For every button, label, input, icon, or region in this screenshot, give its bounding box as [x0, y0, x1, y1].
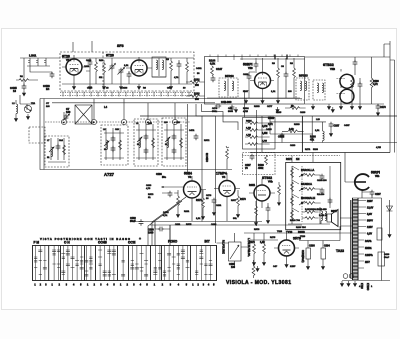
svg-text:6T26: 6T26	[106, 54, 114, 58]
AVC resistor box	[243, 118, 276, 150]
wire avc riser	[245, 90, 262, 226]
wire AF lines	[135, 222, 302, 226]
svg-text:C177: C177	[267, 106, 273, 108]
resistor R9L	[278, 185, 281, 195]
svg-text:160: 160	[66, 110, 71, 114]
capacitor C175	[215, 104, 221, 109]
ground arrows in SF3	[72, 84, 75, 89]
svg-text:KT28: KT28	[360, 283, 362, 289]
svg-text:4,7M: 4,7M	[376, 146, 381, 149]
electrolytic C194	[321, 241, 330, 270]
ground	[331, 107, 334, 112]
svg-text:4,7M: 4,7M	[246, 134, 251, 137]
svg-text:EMB1: EMB1	[365, 247, 372, 250]
wire y122	[270, 121, 326, 123]
resistor R178	[252, 266, 255, 276]
svg-text:R175: R175	[270, 237, 276, 239]
svg-text:R9N4: R9N4	[246, 120, 252, 123]
svg-text:C191: C191	[216, 205, 222, 207]
wires pot area	[217, 233, 250, 268]
switch contacts	[34, 250, 212, 276]
svg-text:125V: 125V	[367, 226, 373, 229]
ground SF3 b	[119, 84, 122, 89]
wire main B line	[140, 115, 397, 117]
resistor R4-218	[305, 217, 315, 220]
capacitor C4B2	[254, 62, 259, 68]
band pack dashed box 4	[162, 118, 186, 166]
junction b	[91, 119, 96, 124]
capacitor C197	[362, 190, 381, 198]
svg-text:C4P: C4P	[273, 265, 278, 268]
resistor R1	[19, 79, 29, 82]
svg-text:C173: C173	[380, 106, 386, 109]
svg-text:1M: 1M	[99, 77, 102, 79]
svg-text:R172: R172	[286, 158, 292, 161]
svg-text:ST932: ST932	[262, 176, 272, 180]
junction e	[172, 119, 177, 124]
svg-text:O H: O H	[64, 241, 70, 245]
ground	[234, 107, 237, 112]
capacitor C176b	[230, 105, 235, 111]
svg-text:MF213: MF213	[299, 74, 308, 78]
junction a	[61, 119, 66, 124]
capacitor C190	[148, 225, 170, 243]
svg-text:MF213: MF213	[225, 74, 234, 78]
tuner pack internals 1	[48, 138, 66, 162]
resistor R174	[255, 206, 258, 216]
speaker 0317	[327, 209, 338, 227]
svg-text:50uF: 50uF	[130, 220, 136, 223]
band pack dashed box 1	[45, 136, 69, 167]
wire bottom bus in box	[62, 83, 192, 85]
svg-text:V4: V4	[222, 175, 226, 179]
wire to transformer	[352, 197, 382, 199]
svg-text:5188: 5188	[313, 149, 319, 151]
svg-text:C4N1: C4N1	[196, 67, 202, 70]
svg-text:1,5M: 1,5M	[262, 132, 267, 135]
svg-text:C168: C168	[300, 112, 306, 114]
SF3 internal divider	[102, 52, 104, 91]
svg-text:V3: V3	[188, 175, 192, 179]
wire verticals	[270, 116, 312, 143]
box 2nd IF	[205, 57, 305, 105]
svg-text:50+: 50+	[162, 176, 167, 179]
svg-text:TA23: TA23	[336, 249, 344, 253]
svg-text:C199: C199	[384, 254, 390, 256]
svg-text:12MPh: 12MPh	[365, 254, 373, 257]
svg-text:R9T7: R9T7	[231, 200, 237, 202]
svg-text:12NF: 12NF	[290, 266, 296, 268]
svg-text:3,3k: 3,3k	[289, 128, 294, 131]
resistor R165	[277, 68, 280, 78]
svg-text:R9T3: R9T3	[148, 194, 154, 196]
IF can L5	[152, 57, 166, 77]
potentiometer	[229, 242, 242, 269]
svg-text:R165: R165	[276, 112, 282, 114]
svg-text:1,5k: 1,5k	[260, 241, 265, 244]
wire top bus in box	[62, 58, 194, 71]
IF can MF213	[219, 74, 238, 97]
svg-text:PAROLLA: PAROLLA	[301, 168, 314, 172]
svg-text:C176: C176	[206, 195, 212, 197]
svg-text:50PV: 50PV	[367, 220, 373, 223]
capacitor C171	[353, 60, 358, 66]
pilot lamp 1	[343, 274, 348, 279]
svg-text:R9N9: R9N9	[294, 124, 300, 126]
capacitor C4B	[247, 74, 252, 80]
svg-text:R9N4: R9N4	[243, 107, 249, 110]
svg-text:R.8N 1k: R.8N 1k	[319, 215, 328, 217]
resistor R176	[249, 233, 256, 265]
svg-text:C167: C167	[334, 125, 340, 128]
svg-text:C4N7: C4N7	[344, 124, 350, 127]
wire antenna feed	[20, 57, 60, 59]
capacitor C189	[168, 191, 173, 197]
wire dashed line	[242, 155, 340, 157]
svg-text:C160: C160	[86, 60, 92, 62]
svg-text:R9N8: R9N8	[298, 230, 305, 234]
resistor R175	[290, 107, 300, 110]
svg-text:C183: C183	[290, 145, 296, 147]
svg-text:50RPI: 50RPI	[371, 171, 380, 175]
svg-text:4,7k: 4,7k	[268, 123, 273, 126]
svg-text:NORMALE: NORMALE	[301, 196, 315, 200]
svg-text:V5b: V5b	[375, 175, 380, 178]
wire risers from packs	[64, 99, 175, 119]
svg-text:Y129: Y129	[300, 236, 306, 238]
svg-text:L3N1: L3N1	[29, 54, 37, 58]
svg-text:500k: 500k	[212, 111, 218, 113]
svg-text:R171: R171	[196, 199, 202, 202]
wire bottom of box	[207, 97, 300, 99]
svg-text:R9T6: R9T6	[254, 229, 260, 231]
wire top rail	[305, 56, 390, 58]
svg-text:C161: C161	[84, 66, 90, 68]
tuning gang box	[75, 105, 92, 124]
svg-text:VISTA POSTERIORE CON TASTI IN: VISTA POSTERIORE CON TASTI IN BASSO	[40, 237, 130, 241]
bus with junctions	[45, 121, 190, 123]
svg-text:R9T5: R9T5	[186, 224, 192, 226]
svg-text:A727: A727	[104, 172, 115, 177]
svg-text:216V: 216V	[367, 200, 373, 203]
oscillator coil dashed box left	[29, 127, 45, 143]
wire risers from bank	[155, 222, 217, 281]
svg-text:C185-390: C185-390	[317, 180, 327, 182]
capacitor C164	[127, 72, 132, 78]
svg-text:V1B: V1B	[330, 67, 335, 71]
svg-text:T928: T928	[277, 231, 283, 233]
tube V5 35Y9	[274, 233, 301, 267]
resistor R167	[226, 146, 229, 169]
svg-text:C186-150: C186-150	[317, 209, 327, 211]
tube 6TB32 upper triode	[337, 69, 357, 91]
ground row	[311, 104, 314, 109]
svg-text:4,7M: 4,7M	[262, 140, 267, 143]
coil L3N1	[27, 54, 50, 67]
tube V2 50BPI	[243, 58, 274, 89]
svg-text:R160 78C: R160 78C	[296, 227, 306, 229]
svg-text:+: +	[139, 237, 141, 241]
IF can MF213 (2nd)	[296, 74, 309, 101]
wire main line y=98.5	[40, 98, 302, 100]
tone control box	[286, 162, 341, 229]
tube V1B 6T26	[106, 54, 152, 77]
svg-text:R163: R163	[194, 94, 200, 96]
svg-text:OC4B: OC4B	[98, 241, 108, 245]
section dividers	[49, 246, 191, 281]
resistor R170	[156, 173, 180, 217]
staircase wires to detector	[202, 104, 238, 130]
wire	[24, 58, 52, 78]
svg-text:4,7M: 4,7M	[262, 125, 267, 128]
svg-text:100: 100	[231, 266, 236, 269]
svg-text:50uF: 50uF	[384, 257, 390, 259]
switch bank frame	[33, 246, 217, 281]
svg-text:C186 50: C186 50	[206, 152, 209, 162]
svg-text:R171: R171	[305, 149, 311, 151]
svg-text:C167: C167	[216, 67, 223, 71]
tube 6TB32 lower triode	[337, 87, 357, 106]
svg-text:C4N2: C4N2	[163, 211, 169, 214]
ground	[22, 91, 25, 96]
svg-text:5000: 5000	[228, 111, 234, 113]
ground arrows bottom	[340, 281, 343, 286]
ground cluster	[244, 98, 247, 103]
band pack dashed box 2	[101, 125, 128, 165]
svg-text:6,3V: 6,3V	[367, 233, 372, 236]
resistor R166	[293, 68, 296, 78]
svg-text:TY28: TY28	[286, 230, 293, 234]
ground	[277, 200, 280, 205]
svg-text:R9N8: R9N8	[268, 117, 275, 120]
capacitor C168	[284, 72, 289, 78]
tube V4b ST932	[249, 176, 275, 208]
tuner pack internals 3	[136, 124, 156, 160]
resistor R4-212	[305, 211, 315, 214]
capacitor C167b	[329, 122, 334, 128]
wire tube V2 cathode	[262, 88, 264, 98]
svg-text:DAPh: DAPh	[365, 240, 372, 243]
svg-text:C4N8: C4N8	[266, 128, 272, 131]
resistor R162	[186, 80, 205, 88]
svg-text:V18: V18	[248, 66, 253, 70]
electrolytic C193	[306, 241, 315, 270]
box SF3	[60, 52, 194, 91]
svg-text:R9N3: R9N3	[254, 106, 260, 108]
transformer winding column	[351, 198, 358, 280]
wire riser x302	[301, 116, 303, 153]
svg-text:50E4: 50E4	[184, 172, 192, 176]
transformer taps	[358, 200, 374, 268]
dotted heater bus under SF3	[60, 93, 194, 96]
resistor R177	[260, 233, 266, 265]
svg-text:C184: C184	[211, 223, 217, 226]
svg-text:C181: C181	[175, 224, 181, 226]
wire rails	[244, 233, 353, 240]
svg-text:400k: 400k	[258, 167, 264, 170]
pilot lamp 2	[349, 274, 354, 279]
svg-text:INT: INT	[205, 240, 210, 244]
svg-text:R167: R167	[243, 91, 249, 93]
svg-text:6TB32: 6TB32	[323, 63, 334, 67]
tone box switch contacts	[299, 166, 305, 222]
svg-text:C197: C197	[375, 193, 381, 196]
wire speaker to transformer	[340, 218, 353, 226]
junction c	[121, 119, 126, 124]
svg-text:C193: C193	[309, 245, 315, 248]
svg-text:6,3k: 6,3k	[210, 62, 216, 66]
svg-text:C183: C183	[146, 185, 152, 187]
svg-text:17MP4: 17MP4	[216, 172, 227, 176]
svg-text:OC3I: OC3I	[128, 241, 136, 245]
resistor R169	[370, 57, 379, 104]
capacitor C172	[358, 82, 363, 88]
svg-text:E4: E4	[46, 87, 50, 91]
svg-text:R173: R173	[240, 198, 246, 201]
rectifier column	[377, 198, 393, 281]
wire inner column	[329, 166, 331, 208]
wire bottom rail	[342, 280, 390, 282]
capacitor C9N2	[266, 206, 271, 212]
resistor R171	[196, 190, 205, 219]
switch contact lines	[36, 246, 211, 281]
svg-text:1,5M: 1,5M	[246, 128, 251, 130]
transistor input cluster	[14, 95, 34, 121]
svg-text:R9T2: R9T2	[204, 140, 210, 142]
svg-text:F M: F M	[34, 241, 40, 245]
capacitor C166	[177, 62, 182, 68]
svg-text:50BPI: 50BPI	[243, 63, 252, 67]
tube V4 17MP4	[214, 172, 240, 222]
wire y134	[270, 133, 313, 135]
svg-text:5,6V: 5,6V	[367, 213, 372, 216]
capacitor C173	[376, 104, 387, 116]
wire tone box feeds	[292, 153, 313, 163]
tuner pack internals 4	[164, 124, 184, 160]
resistor R161	[103, 63, 106, 73]
svg-text:FONO: FONO	[168, 240, 178, 244]
wire y240 right	[299, 240, 340, 242]
resistor R160	[95, 62, 98, 72]
wire y142.5	[262, 142, 397, 144]
wire stubs exiting SF3 top	[73, 41, 92, 52]
resistor 3,3k	[288, 130, 298, 133]
wire right vertical	[384, 41, 395, 153]
svg-text:L.T.ALTA VELOC.: L.T.ALTA VELOC.	[247, 238, 250, 257]
resistor R163	[186, 62, 189, 72]
wire double top edge	[240, 58, 305, 60]
ground SF3	[88, 84, 91, 89]
ground	[276, 107, 279, 112]
trimmer C162	[109, 58, 116, 84]
capacitor C4T2	[194, 134, 199, 140]
capacitor C160	[88, 60, 93, 66]
svg-text:V4b: V4b	[268, 180, 273, 184]
svg-text:R161: R161	[184, 211, 190, 213]
box tuner outer	[40, 99, 232, 170]
choke coil	[323, 131, 325, 141]
wire bottom rail 6TB32	[305, 103, 384, 105]
svg-text:SF3: SF3	[117, 44, 124, 48]
wire second line y=103	[52, 102, 215, 104]
output transformer T928	[321, 208, 327, 224]
tuner pack internals 2	[104, 128, 124, 160]
trimmer C163	[118, 68, 125, 85]
junction d	[145, 119, 150, 124]
capacitor C182	[130, 217, 143, 226]
svg-text:R162: R162	[194, 80, 200, 82]
diagonal wire to switch bank	[152, 197, 186, 246]
svg-text:C4T1: C4T1	[189, 129, 195, 132]
trimmer C8	[63, 114, 70, 121]
tube V3 50E4	[161, 172, 206, 222]
svg-text:MF7: MF7	[365, 261, 370, 264]
detector network box	[243, 153, 276, 175]
resistor R173	[236, 190, 246, 217]
svg-text:R2-160: R2-160	[317, 194, 325, 196]
svg-text:1M: 1M	[296, 158, 299, 161]
wire B+ line	[250, 152, 390, 154]
svg-text:C166: C166	[122, 88, 128, 90]
resistor R163	[186, 94, 205, 102]
svg-text:12,6V: 12,6V	[367, 207, 374, 210]
svg-text:C194: C194	[324, 245, 330, 248]
svg-text:4,7M: 4,7M	[243, 110, 248, 113]
svg-text:C192(50uF): C192(50uF)	[301, 250, 303, 263]
IF can second winding	[313, 80, 325, 100]
svg-text:KT28C: KT28C	[366, 283, 368, 291]
svg-text:4,7k: 4,7k	[373, 83, 378, 86]
trimmer arrows tuner packs	[49, 137, 170, 152]
svg-text:MUSICA: MUSICA	[301, 182, 312, 186]
svg-text:1000: 1000	[148, 232, 154, 235]
svg-text:P.L.VOLUME: P.L.VOLUME	[222, 240, 224, 254]
wire box D inner drops	[218, 57, 242, 63]
tube V1A 6T26	[62, 55, 86, 85]
svg-text:R9N1: R9N1	[249, 184, 256, 187]
ground	[256, 266, 259, 271]
capacitor C4L	[328, 198, 333, 204]
band pack dashed box 3	[134, 119, 158, 166]
wire riser x340	[339, 226, 341, 241]
svg-text:C4B-300: C4B-300	[221, 100, 232, 104]
resistor R168	[351, 78, 354, 88]
svg-text:VISIOLA - MOD. YL3081: VISIOLA - MOD. YL3081	[226, 280, 291, 286]
resistor R162	[170, 61, 173, 71]
svg-text:BA33 700: BA33 700	[290, 219, 301, 222]
capacitor C191	[212, 198, 217, 204]
